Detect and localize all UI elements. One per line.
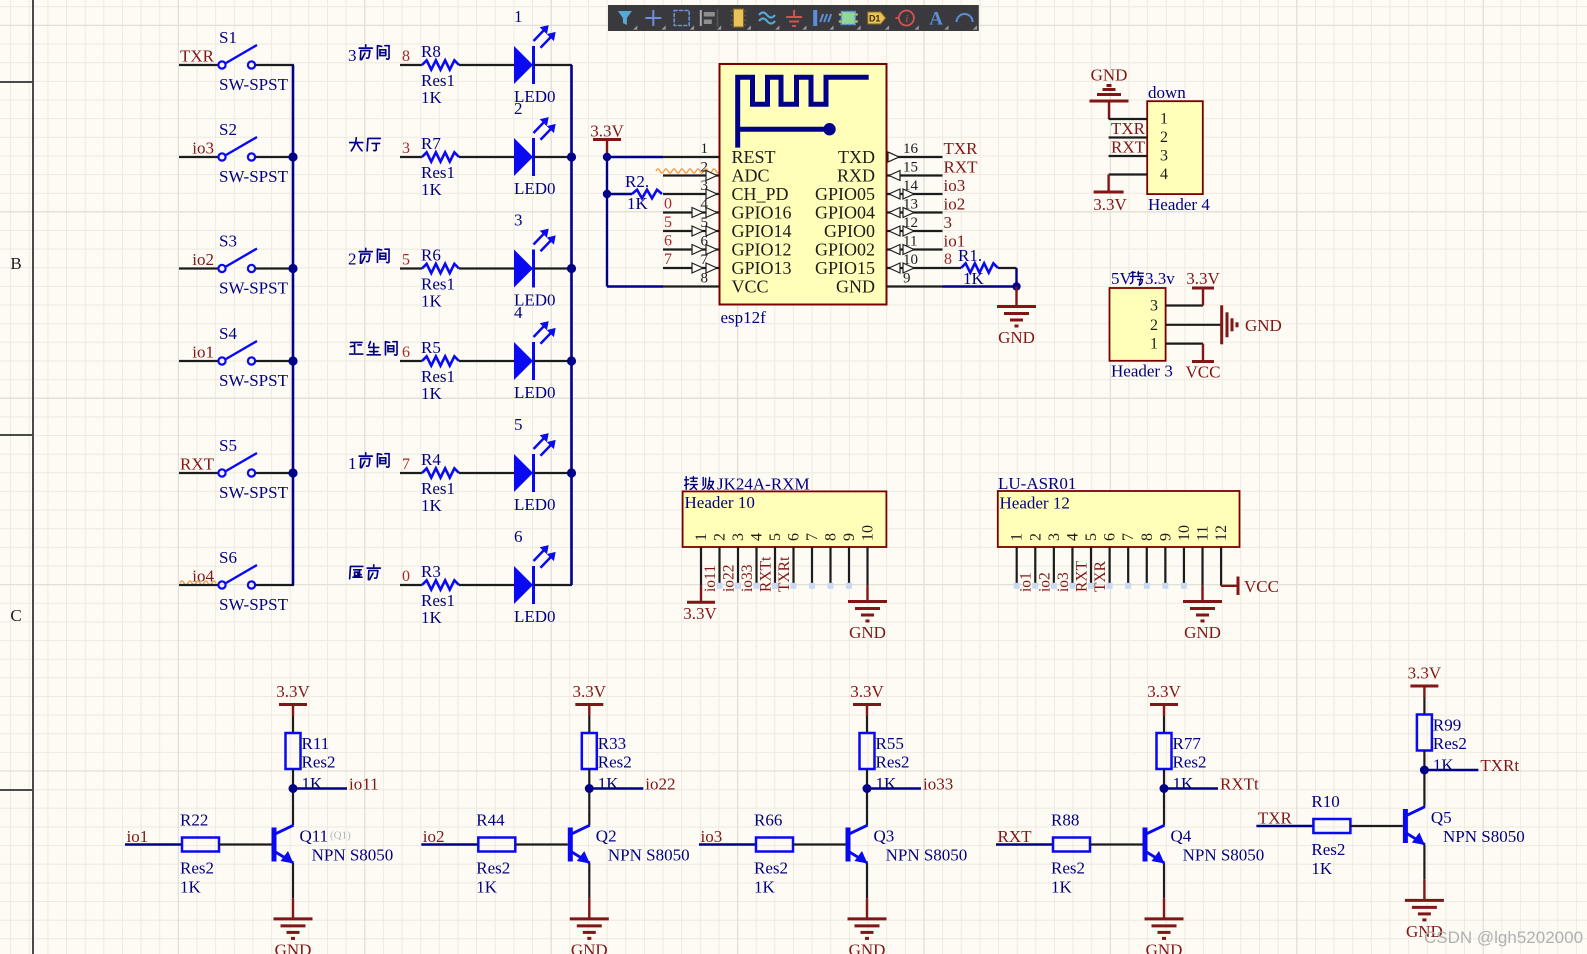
svg-text:3.3V: 3.3V xyxy=(573,682,607,701)
svg-text:3.3V: 3.3V xyxy=(276,682,310,701)
svg-text:1: 1 xyxy=(693,533,710,541)
svg-text:1K: 1K xyxy=(421,384,443,403)
junction xyxy=(567,356,576,365)
esp pin 1 REST xyxy=(663,156,720,158)
svg-text:1K: 1K xyxy=(1433,756,1455,775)
svg-text:10: 10 xyxy=(860,525,877,541)
wire collector xyxy=(292,769,294,825)
junction xyxy=(288,468,297,477)
junction node CH_PD xyxy=(603,190,611,198)
svg-text:4: 4 xyxy=(1160,166,1168,183)
svg-text:8: 8 xyxy=(944,251,952,268)
wire switch to bus xyxy=(256,267,295,269)
svg-text:io3: io3 xyxy=(192,139,214,158)
svg-text:3: 3 xyxy=(1150,298,1158,315)
svg-text:1: 1 xyxy=(1150,336,1158,353)
svg-text:TXR: TXR xyxy=(944,139,979,158)
svg-text:VCC: VCC xyxy=(1186,363,1221,382)
ground GND esp xyxy=(1015,287,1017,307)
transistor Q11 NPN S8050 xyxy=(272,828,277,862)
esp pin 16 TXD xyxy=(887,156,943,158)
resistor R99 Res2 1K xyxy=(1417,715,1432,751)
svg-text:8: 8 xyxy=(701,271,709,287)
svg-text:R1.: R1. xyxy=(958,246,982,265)
svg-text:NPN S8050: NPN S8050 xyxy=(1443,827,1525,846)
svg-text:C: C xyxy=(10,606,21,625)
svg-text:GND: GND xyxy=(849,623,886,642)
power 3.3V header3 xyxy=(1202,288,1204,306)
svg-text:15: 15 xyxy=(903,160,918,176)
svg-text:R33: R33 xyxy=(598,734,626,753)
wire LED to bus xyxy=(534,156,572,158)
wire LED to bus xyxy=(534,64,572,66)
wire base in xyxy=(1256,825,1313,827)
ground GND header3 sideways xyxy=(1203,324,1222,326)
svg-text:Res2: Res2 xyxy=(1433,734,1467,753)
svg-text:1K: 1K xyxy=(421,496,443,515)
svg-text:1: 1 xyxy=(1160,111,1168,128)
svg-text:Res2: Res2 xyxy=(302,753,336,772)
svg-text:LED0: LED0 xyxy=(514,179,556,198)
svg-text:6: 6 xyxy=(514,527,523,546)
resistor R22 Res2 1K xyxy=(182,838,219,852)
wire LED to bus xyxy=(534,267,572,269)
wire switch to bus xyxy=(256,584,295,586)
junction xyxy=(567,152,576,161)
junction xyxy=(288,264,297,273)
svg-text:9: 9 xyxy=(841,533,858,541)
esp pin 9 GND xyxy=(887,285,943,287)
svg-text:NPN S8050: NPN S8050 xyxy=(608,846,690,865)
svg-text:RXT: RXT xyxy=(944,158,979,177)
svg-text:GND: GND xyxy=(275,940,312,954)
svg-text:1K: 1K xyxy=(754,878,776,897)
junction node RXTt xyxy=(1160,784,1169,793)
ground GND Q5 xyxy=(1423,880,1425,901)
svg-text:VCC: VCC xyxy=(732,277,769,297)
svg-text:5: 5 xyxy=(664,214,672,231)
svg-text:3.3V: 3.3V xyxy=(590,122,624,141)
ground GND header12 xyxy=(1201,586,1203,602)
svg-text:GPIO15: GPIO15 xyxy=(815,258,875,278)
svg-text:3.3V: 3.3V xyxy=(683,604,717,623)
wire to REST pin1 xyxy=(607,156,663,158)
svg-text:Q5: Q5 xyxy=(1431,808,1452,827)
junction xyxy=(567,264,576,273)
svg-text:S4: S4 xyxy=(219,324,237,343)
LED LED0 row 1 xyxy=(514,46,533,84)
svg-text:R88: R88 xyxy=(1051,811,1079,830)
svg-text:11: 11 xyxy=(1195,526,1212,541)
svg-text:R3: R3 xyxy=(421,562,441,581)
power 3.3V header10 xyxy=(700,586,702,602)
wire R1 to GND node xyxy=(1015,268,1017,287)
svg-text:RXTt: RXTt xyxy=(1220,775,1259,794)
transistor Q4 NPN S8050 xyxy=(1143,828,1148,862)
svg-text:io2: io2 xyxy=(192,250,214,269)
svg-text:RXT: RXT xyxy=(1111,138,1146,157)
svg-text:12: 12 xyxy=(1213,525,1230,541)
svg-text:NPN S8050: NPN S8050 xyxy=(1183,846,1265,865)
ground GND Q4 xyxy=(1163,898,1165,919)
svg-text:7: 7 xyxy=(402,456,410,473)
svg-text:Res2: Res2 xyxy=(876,753,910,772)
svg-text:io1: io1 xyxy=(127,827,149,846)
esp pin 14 GPIO05 xyxy=(887,193,943,195)
svg-text:(Q1): (Q1) xyxy=(330,830,351,842)
svg-text:SW-SPST: SW-SPST xyxy=(219,371,289,390)
svg-text:TXRt: TXRt xyxy=(776,556,793,592)
connector Header 10 JK24A-RXM xyxy=(685,477,698,490)
svg-text:SW-SPST: SW-SPST xyxy=(219,75,289,94)
header4 pin 1 xyxy=(1109,118,1148,120)
svg-text:5: 5 xyxy=(767,533,784,541)
room label 大厅 xyxy=(350,138,363,151)
svg-text:1K: 1K xyxy=(180,878,202,897)
svg-text:GND: GND xyxy=(571,940,608,954)
svg-text:i: i xyxy=(905,13,908,25)
svg-text:GND: GND xyxy=(1146,940,1183,954)
svg-text:1K: 1K xyxy=(1173,774,1195,793)
svg-text:GPIO05: GPIO05 xyxy=(815,184,875,204)
svg-text:GPIO12: GPIO12 xyxy=(732,240,792,260)
bus wire switches xyxy=(292,65,295,585)
svg-text:2: 2 xyxy=(1160,129,1168,146)
esp pin 3 CH_PD xyxy=(663,193,720,195)
svg-text:Q4: Q4 xyxy=(1171,827,1192,846)
svg-text:3: 3 xyxy=(944,213,953,232)
svg-text:3: 3 xyxy=(348,46,357,65)
svg-text:4: 4 xyxy=(749,533,766,541)
LED LED0 row 3 xyxy=(514,250,533,288)
esp pin 6 GPIO12 xyxy=(663,248,720,250)
svg-text:S1: S1 xyxy=(219,28,237,47)
svg-text:io1: io1 xyxy=(192,343,214,362)
svg-text:io22: io22 xyxy=(645,775,675,794)
svg-text:R99: R99 xyxy=(1433,716,1461,735)
junction node io33 xyxy=(863,784,872,793)
svg-text:2: 2 xyxy=(514,99,523,118)
svg-text:1K: 1K xyxy=(598,774,620,793)
svg-text:CH_PD: CH_PD xyxy=(732,184,789,204)
svg-text:SW-SPST: SW-SPST xyxy=(219,595,289,614)
svg-text:GPIO16: GPIO16 xyxy=(732,203,792,223)
svg-text:SW-SPST: SW-SPST xyxy=(219,483,289,502)
svg-text:R7: R7 xyxy=(421,134,441,153)
svg-text:RXT: RXT xyxy=(1073,560,1090,592)
junction xyxy=(288,356,297,365)
svg-text:down: down xyxy=(1148,83,1186,102)
svg-text:1K: 1K xyxy=(421,88,443,107)
svg-text:16: 16 xyxy=(903,141,919,157)
svg-text:R6: R6 xyxy=(421,246,441,265)
resistor R2 1K xyxy=(607,193,632,195)
svg-text:NPN S8050: NPN S8050 xyxy=(312,846,394,865)
header3 pin 3 xyxy=(1166,304,1203,306)
resistor R11 Res2 1K xyxy=(286,733,301,769)
svg-text:B: B xyxy=(10,254,21,273)
svg-text:3: 3 xyxy=(402,140,410,157)
header4 pin 4 xyxy=(1109,173,1148,175)
wire 3.3V to R55 xyxy=(866,716,868,733)
wire collector xyxy=(588,769,590,825)
svg-text:REST: REST xyxy=(732,147,776,167)
svg-text:GND: GND xyxy=(1245,316,1282,335)
svg-text:TXD: TXD xyxy=(838,147,875,167)
svg-text:Res2: Res2 xyxy=(1173,753,1207,772)
wire 3.3V bus vertical xyxy=(606,157,608,287)
svg-text:7: 7 xyxy=(664,251,672,268)
junction node io22 xyxy=(585,784,594,793)
svg-text:3.3V: 3.3V xyxy=(1093,195,1127,214)
svg-text:GPIO02: GPIO02 xyxy=(815,240,875,260)
svg-text:Res2: Res2 xyxy=(476,859,510,878)
svg-text:1K: 1K xyxy=(476,878,498,897)
svg-text:esp12f: esp12f xyxy=(721,308,767,327)
svg-text:5: 5 xyxy=(402,252,410,269)
svg-text:S2: S2 xyxy=(219,120,237,139)
svg-text:5: 5 xyxy=(1083,533,1100,541)
wire emitter xyxy=(866,863,868,898)
svg-text:9: 9 xyxy=(903,271,911,287)
sheet border left margin xyxy=(32,0,34,954)
svg-text:RXD: RXD xyxy=(837,166,875,186)
esp pin 5 GPIO14 xyxy=(663,230,720,232)
svg-text:1: 1 xyxy=(1009,533,1026,541)
room label 卫生间 xyxy=(350,342,363,354)
svg-text:R8: R8 xyxy=(421,42,441,61)
svg-text:CSDN @lgh5202000: CSDN @lgh5202000 xyxy=(1424,928,1583,947)
header4 pin 3 xyxy=(1109,155,1148,157)
wire collector xyxy=(1163,769,1165,825)
svg-text:1K: 1K xyxy=(302,774,324,793)
wire switch to bus xyxy=(256,360,295,362)
wire LED to bus xyxy=(534,584,572,586)
svg-text:Header 4: Header 4 xyxy=(1148,195,1210,214)
svg-text:1K: 1K xyxy=(1051,878,1073,897)
svg-text:io11: io11 xyxy=(702,565,719,592)
svg-text:io3: io3 xyxy=(701,827,723,846)
junction node io11 xyxy=(289,784,298,793)
LED LED0 row 2 xyxy=(514,138,533,176)
svg-text:LED0: LED0 xyxy=(514,607,556,626)
svg-text:7: 7 xyxy=(1120,533,1137,541)
junction GND node xyxy=(1012,282,1020,290)
resistor R66 Res2 1K xyxy=(756,838,793,852)
svg-text:Res2: Res2 xyxy=(180,859,214,878)
svg-text:S3: S3 xyxy=(219,232,237,251)
svg-text:6: 6 xyxy=(664,233,672,250)
svg-text:Header 3: Header 3 xyxy=(1111,362,1173,381)
svg-text:TXRt: TXRt xyxy=(1480,756,1519,775)
power VCC header12 xyxy=(1220,585,1222,587)
svg-text:R11: R11 xyxy=(302,734,330,753)
svg-text:3.3V: 3.3V xyxy=(850,682,884,701)
svg-text:1K: 1K xyxy=(876,774,898,793)
svg-text:GND: GND xyxy=(836,277,875,297)
resistor R33 Res2 1K xyxy=(582,733,597,769)
junction xyxy=(288,152,297,161)
esp pin 11 GPIO02 xyxy=(887,248,943,250)
header3 pin 1 xyxy=(1166,343,1203,345)
ground GND header10 xyxy=(866,586,868,602)
junction node TXRt xyxy=(1420,766,1429,775)
svg-text:8: 8 xyxy=(1139,533,1156,541)
svg-text:R10: R10 xyxy=(1311,792,1339,811)
svg-text:io1: io1 xyxy=(1018,572,1035,592)
svg-text:6: 6 xyxy=(1102,533,1119,541)
wire base in xyxy=(421,843,478,845)
esp pin 2 ADC xyxy=(663,174,720,176)
svg-text:Header 10: Header 10 xyxy=(685,493,755,512)
svg-text:1K: 1K xyxy=(421,608,443,627)
svg-text:Res2: Res2 xyxy=(754,859,788,878)
svg-text:GPIO04: GPIO04 xyxy=(815,203,875,223)
svg-text:4: 4 xyxy=(1064,533,1081,541)
svg-text:7: 7 xyxy=(804,533,821,541)
ground GND Q2 xyxy=(588,898,590,919)
transistor Q5 NPN S8050 xyxy=(1403,809,1408,843)
resistor R55 Res2 1K xyxy=(860,733,875,769)
transistor Q2 NPN S8050 xyxy=(568,828,573,862)
svg-text:1K: 1K xyxy=(627,194,649,213)
header4 pin 2 xyxy=(1109,136,1148,138)
resistor R10 Res2 1K xyxy=(1313,819,1350,833)
wire 3.3V to R33 xyxy=(588,716,590,733)
svg-text:6: 6 xyxy=(402,344,410,361)
svg-text:4: 4 xyxy=(514,303,523,322)
svg-text:io2: io2 xyxy=(423,827,445,846)
svg-text:GND: GND xyxy=(1091,66,1128,85)
svg-text:Res2: Res2 xyxy=(598,753,632,772)
svg-text:3: 3 xyxy=(1046,533,1063,541)
wire switch to bus xyxy=(256,64,295,66)
wire 3.3V to R99 xyxy=(1423,698,1425,715)
LED LED0 row 5 xyxy=(514,454,533,492)
esp pin 15 RXD xyxy=(887,174,943,176)
svg-text:io22: io22 xyxy=(721,564,738,592)
svg-text:2: 2 xyxy=(1027,533,1044,541)
ground GND Q3 xyxy=(866,898,868,919)
esp pin 7 GPIO13 xyxy=(663,267,720,269)
svg-text:GND: GND xyxy=(1184,623,1221,642)
svg-text:R44: R44 xyxy=(476,811,505,830)
wire 3.3V to R11 xyxy=(292,716,294,733)
power 3.3V header4 xyxy=(1107,175,1109,193)
esp antenna glyph xyxy=(738,77,869,147)
svg-text:R5: R5 xyxy=(421,338,441,357)
toolbar xyxy=(608,5,979,31)
svg-text:1K: 1K xyxy=(421,292,443,311)
svg-text:R55: R55 xyxy=(876,734,904,753)
svg-text:Res2: Res2 xyxy=(1051,859,1085,878)
svg-text:A: A xyxy=(929,9,943,30)
svg-text:Res2: Res2 xyxy=(1311,840,1345,859)
resistor R8 Res1 1K xyxy=(400,64,422,66)
transistor Q3 NPN S8050 xyxy=(846,828,851,862)
wire VCC row xyxy=(607,285,663,287)
svg-text:Q3: Q3 xyxy=(874,827,895,846)
svg-text:1K: 1K xyxy=(421,180,443,199)
svg-text:SW-SPST: SW-SPST xyxy=(219,167,289,186)
svg-text:io33: io33 xyxy=(739,564,756,592)
svg-text:5: 5 xyxy=(514,415,523,434)
svg-text:R4: R4 xyxy=(421,450,441,469)
svg-text:2: 2 xyxy=(712,533,729,541)
svg-text:GND: GND xyxy=(849,940,886,954)
svg-text:3.3V: 3.3V xyxy=(1186,269,1220,288)
svg-text:2: 2 xyxy=(348,250,357,269)
svg-text:3: 3 xyxy=(514,211,523,230)
resistor R6 Res1 1K xyxy=(400,267,422,269)
wire switch to bus xyxy=(256,472,295,474)
svg-text:VCC: VCC xyxy=(1244,577,1279,596)
resistor R5 Res1 1K xyxy=(400,360,422,362)
resistor R44 Res2 1K xyxy=(478,838,515,852)
svg-text:io2: io2 xyxy=(944,195,966,214)
wire emitter xyxy=(1423,845,1425,880)
wire collector xyxy=(866,769,868,825)
wire LED to bus xyxy=(534,472,572,474)
svg-text:RXTt: RXTt xyxy=(758,556,775,592)
svg-text:0: 0 xyxy=(402,568,410,585)
svg-text:3: 3 xyxy=(730,533,747,541)
svg-text:5V: 5V xyxy=(1111,269,1133,288)
resistor R88 Res2 1K xyxy=(1053,838,1090,852)
svg-text:GPIO14: GPIO14 xyxy=(732,221,792,241)
header3 pin 2 xyxy=(1166,324,1203,326)
svg-text:3.3v: 3.3v xyxy=(1145,269,1175,288)
svg-text:3.3V: 3.3V xyxy=(1147,682,1181,701)
svg-text:R22: R22 xyxy=(180,811,208,830)
power VCC header3 xyxy=(1202,344,1204,362)
svg-text:io3: io3 xyxy=(944,176,966,195)
wire base in xyxy=(699,843,756,845)
svg-text:TXR: TXR xyxy=(1258,809,1293,828)
svg-text:SW-SPST: SW-SPST xyxy=(219,279,289,298)
esp pin 10 GPIO15 xyxy=(887,267,943,269)
wire base in xyxy=(125,843,182,845)
svg-text:1: 1 xyxy=(348,454,357,473)
wire LED to bus xyxy=(534,360,572,362)
wire 3.3V to R77 xyxy=(1163,716,1165,733)
svg-text:1K: 1K xyxy=(1311,859,1333,878)
bus wire LEDs xyxy=(570,65,573,585)
svg-text:8: 8 xyxy=(402,48,410,65)
svg-text:3: 3 xyxy=(1160,148,1168,165)
svg-text:R2.: R2. xyxy=(625,172,649,191)
svg-text:GPIO13: GPIO13 xyxy=(732,258,792,278)
svg-text:io11: io11 xyxy=(349,775,379,794)
svg-text:R77: R77 xyxy=(1173,734,1202,753)
svg-text:9: 9 xyxy=(1157,533,1174,541)
resistor R7 Res1 1K xyxy=(400,156,422,158)
LED LED0 row 6 xyxy=(514,566,533,604)
resistor R3 Res1 1K xyxy=(400,584,422,586)
junction node 3.3V xyxy=(603,153,611,161)
esp pin 4 GPIO16 xyxy=(663,211,720,213)
svg-text:TXR: TXR xyxy=(1111,119,1146,138)
svg-text:GPIO0: GPIO0 xyxy=(824,221,875,241)
ground GND Q11 xyxy=(292,898,294,919)
LED LED0 row 4 xyxy=(514,342,533,380)
wire emitter xyxy=(1163,863,1165,898)
svg-text:1: 1 xyxy=(701,141,709,157)
wire emitter xyxy=(588,863,590,898)
svg-text:NPN S8050: NPN S8050 xyxy=(886,846,968,865)
svg-text:RXT: RXT xyxy=(998,827,1033,846)
svg-text:GND: GND xyxy=(998,328,1035,347)
